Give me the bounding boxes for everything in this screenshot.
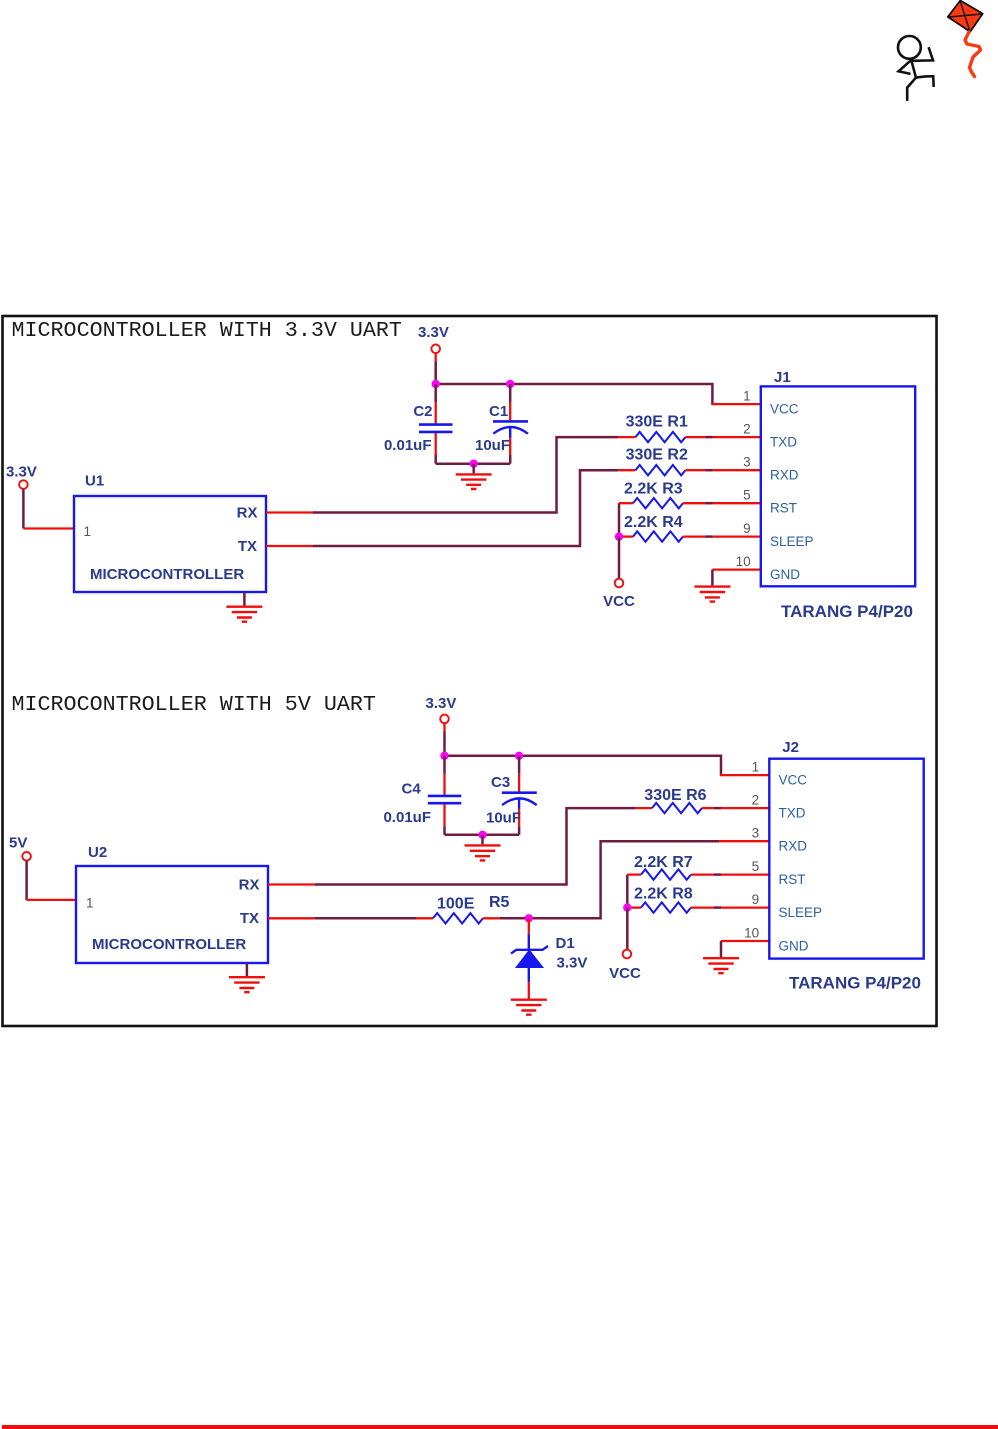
svg-text:RST: RST	[770, 501, 797, 516]
pin stub U1 pin1	[23, 527, 74, 529]
svg-text:C1: C1	[489, 403, 508, 420]
connector J2 box	[769, 759, 923, 959]
svg-text:5V: 5V	[9, 835, 27, 852]
wire R7 to J2 RST	[714, 873, 769, 876]
svg-text:5: 5	[743, 488, 751, 503]
svg-text:TXD: TXD	[779, 806, 806, 821]
node junction B1	[440, 752, 448, 760]
pin stub U1 TX	[266, 545, 313, 547]
logo kite tail	[965, 32, 981, 77]
wire R3 to J1 RST	[706, 502, 761, 505]
wire VCC net top	[436, 384, 713, 404]
svg-text:RX: RX	[239, 877, 260, 894]
svg-text:SLEEP: SLEEP	[770, 534, 814, 549]
svg-text:1: 1	[743, 389, 751, 404]
svg-text:330E R2: 330E R2	[626, 447, 688, 464]
svg-text:100E: 100E	[437, 896, 475, 913]
capacitor C1 (polarized)	[493, 384, 528, 464]
wire to U1 pin1	[22, 489, 25, 528]
pin stub U2 RX	[268, 883, 315, 885]
wire node to J2 RXD	[529, 841, 719, 918]
wire R8 to J2 SLEEP	[714, 906, 769, 909]
svg-text:R5: R5	[489, 894, 510, 911]
node junction R3R4	[615, 532, 623, 540]
wire R5 to node	[500, 917, 529, 920]
svg-text:RX: RX	[237, 505, 258, 522]
svg-text:TX: TX	[240, 910, 259, 927]
svg-text:2: 2	[743, 422, 751, 437]
svg-text:MICROCONTROLLER: MICROCONTROLLER	[90, 566, 244, 583]
ground (J1)	[694, 587, 730, 602]
svg-text:3.3V: 3.3V	[557, 955, 588, 972]
capacitor C3 (polarized)	[502, 756, 537, 835]
svg-text:C4: C4	[402, 781, 422, 798]
resistor R3	[619, 498, 706, 508]
svg-text:MICROCONTROLLER WITH 5V UART: MICROCONTROLLER WITH 5V UART	[12, 692, 376, 717]
svg-text:U2: U2	[88, 844, 107, 861]
svg-text:J2: J2	[782, 739, 799, 756]
wire RX to R1	[313, 437, 618, 512]
wire R1 to J1 TXD	[706, 436, 761, 439]
pin stub U1 RX	[266, 511, 313, 513]
microcontroller U1 box	[74, 496, 266, 592]
svg-text:10uF: 10uF	[475, 437, 510, 454]
svg-text:9: 9	[743, 521, 751, 536]
svg-text:1: 1	[84, 524, 92, 539]
node junction B3	[478, 831, 486, 839]
resistor R6	[636, 803, 714, 813]
node junction A2	[506, 380, 514, 388]
svg-text:D1: D1	[556, 935, 575, 952]
svg-text:RXD: RXD	[770, 468, 799, 483]
svg-text:RST: RST	[779, 872, 806, 887]
wire VCC to R3 R4	[618, 503, 621, 536]
pin stub J1 pin1	[711, 403, 761, 405]
wire to U2 pin1	[25, 861, 28, 900]
svg-text:1: 1	[752, 760, 760, 775]
ground (caps sec1)	[456, 464, 492, 489]
power terminal circle U2	[22, 852, 31, 861]
node junction A3	[470, 460, 478, 468]
ground (J2)	[703, 958, 739, 973]
bottom rule	[2, 1425, 998, 1429]
svg-text:10uF: 10uF	[486, 810, 521, 827]
svg-text:330E R6: 330E R6	[644, 787, 706, 804]
svg-text:MICROCONTROLLER: MICROCONTROLLER	[92, 936, 246, 953]
resistor R2	[618, 465, 706, 475]
svg-text:C2: C2	[413, 403, 432, 420]
wire terminal to node	[435, 353, 437, 361]
wire TX to R2	[313, 470, 618, 546]
svg-text:3.3V: 3.3V	[426, 695, 457, 712]
logo kite	[948, 1, 983, 32]
wire R4 to J1 SLEEP	[706, 535, 761, 538]
svg-text:10: 10	[744, 926, 759, 941]
svg-text:1: 1	[86, 896, 94, 911]
ground (U2)	[229, 963, 265, 992]
svg-text:2: 2	[752, 793, 760, 808]
svg-text:VCC: VCC	[609, 965, 641, 982]
wire terminal to node (sec2)	[443, 724, 445, 732]
svg-text:TARANG P4/P20: TARANG P4/P20	[781, 602, 913, 621]
wire cap bottoms	[436, 462, 511, 465]
svg-text:0.01uF: 0.01uF	[384, 437, 432, 454]
pin stub J2 pin1	[720, 774, 769, 776]
power terminal circle U1	[19, 480, 28, 489]
zener diode D1	[511, 918, 548, 998]
wire TX to R5	[315, 917, 416, 920]
svg-text:2.2K R7: 2.2K R7	[634, 854, 693, 871]
svg-text:3: 3	[743, 455, 751, 470]
svg-text:0.01uF: 0.01uF	[383, 809, 431, 826]
resistor R7	[627, 869, 714, 879]
svg-text:MICROCONTROLLER WITH 3.3V UART: MICROCONTROLLER WITH 3.3V UART	[12, 318, 402, 343]
wire GND corner	[711, 570, 714, 586]
svg-text:VCC: VCC	[770, 402, 799, 417]
svg-text:J1: J1	[774, 369, 791, 386]
wire VCC to R7 R8	[626, 875, 629, 908]
wire GND corner (J2)	[720, 941, 723, 957]
node junction D1	[525, 914, 533, 922]
pin stub J2 GND	[721, 940, 769, 942]
wire junction to VCC terminal	[618, 537, 621, 579]
wire junction to VCC terminal (sec2)	[626, 908, 629, 950]
pin stub J1 GND	[712, 568, 760, 570]
wire R6 to J2 TXD	[714, 807, 769, 810]
svg-text:2.2K R8: 2.2K R8	[634, 886, 693, 903]
resistor R4	[619, 531, 706, 541]
svg-text:GND: GND	[779, 939, 809, 954]
node junction A1	[432, 380, 440, 388]
resistor R5	[416, 913, 500, 923]
power terminal VCC circle (sec1)	[615, 579, 624, 588]
pin stub J2 RXD	[719, 840, 769, 842]
svg-text:3.3V: 3.3V	[6, 464, 37, 481]
svg-text:TARANG P4/P20: TARANG P4/P20	[789, 974, 921, 993]
svg-text:VCC: VCC	[603, 593, 635, 610]
wire R2 to J1 RXD	[706, 469, 761, 472]
wire VCC net top (sec2)	[445, 756, 722, 775]
power terminal 3.3V circle	[431, 345, 440, 354]
svg-text:10: 10	[736, 554, 751, 569]
svg-text:TXD: TXD	[770, 435, 797, 450]
capacitor C4	[428, 756, 462, 835]
svg-text:330E R1: 330E R1	[626, 414, 688, 431]
microcontroller U2 box	[76, 866, 268, 963]
svg-text:SLEEP: SLEEP	[779, 905, 823, 920]
wire cap bottoms (sec2)	[445, 834, 520, 837]
svg-text:3.3V: 3.3V	[418, 324, 449, 341]
node junction B2	[515, 752, 523, 760]
svg-text:9: 9	[752, 892, 760, 907]
node junction R7R8	[623, 903, 631, 911]
svg-text:3: 3	[752, 826, 760, 841]
svg-text:VCC: VCC	[779, 773, 808, 788]
pin stub U2 pin1	[27, 899, 76, 901]
power terminal VCC circle (sec2)	[623, 950, 632, 959]
capacitor C2	[419, 384, 453, 464]
ground (D1)	[511, 1000, 547, 1015]
ground (caps sec2)	[465, 835, 501, 861]
svg-text:C3: C3	[491, 774, 510, 791]
svg-text:2.2K R4: 2.2K R4	[624, 514, 683, 531]
logo stick figure	[898, 36, 934, 100]
connector J1 box	[761, 386, 915, 586]
svg-text:GND: GND	[770, 567, 800, 582]
resistor R8	[627, 902, 714, 912]
svg-text:5: 5	[752, 859, 760, 874]
svg-text:U1: U1	[85, 473, 104, 490]
pin stub U2 TX	[268, 917, 315, 919]
svg-text:2.2K R3: 2.2K R3	[624, 481, 683, 498]
resistor R1	[618, 432, 706, 442]
ground (U1)	[226, 592, 262, 622]
svg-text:RXD: RXD	[779, 839, 808, 854]
power terminal 3.3V circle (sec2)	[440, 715, 449, 724]
schematic frame	[3, 316, 937, 1026]
svg-text:TX: TX	[238, 538, 257, 555]
wire RX to R6	[315, 808, 636, 884]
